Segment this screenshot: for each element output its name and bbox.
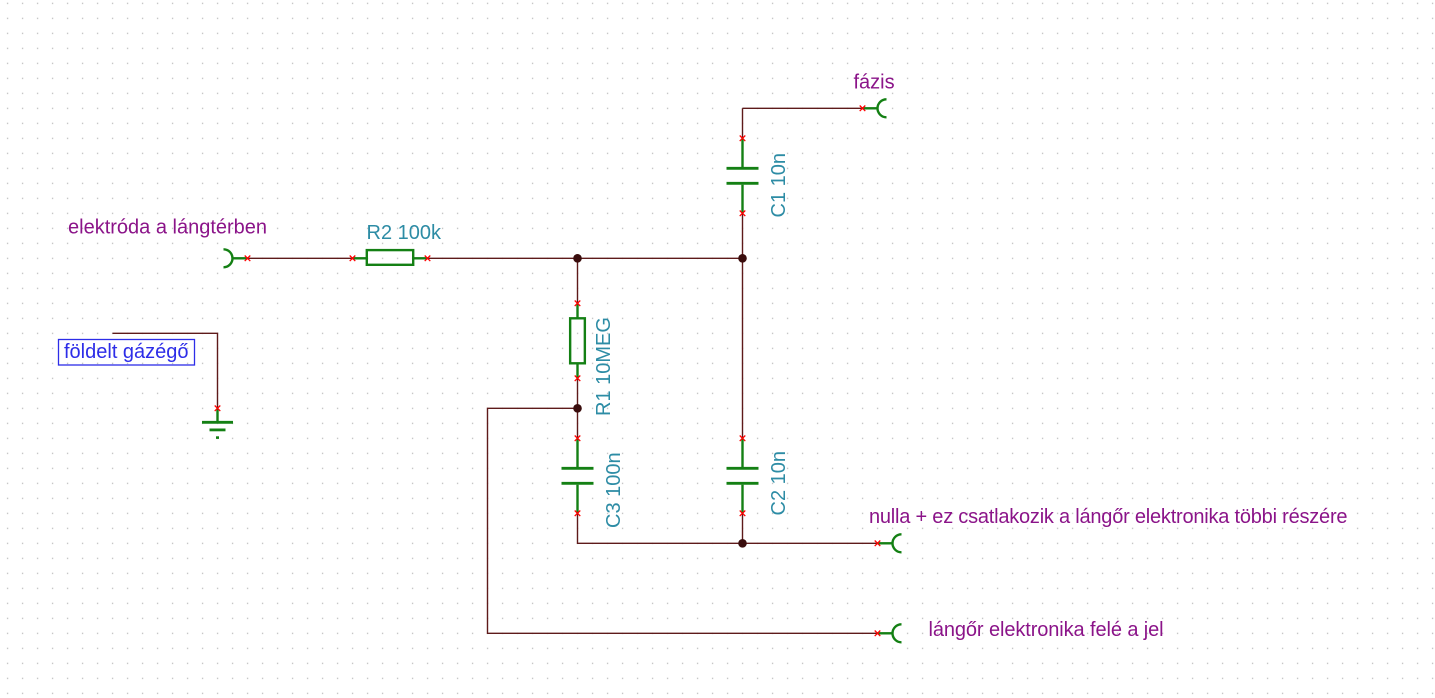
wire fázis net horizontal — [743, 107, 863, 109]
capacitor C1 — [727, 138, 759, 213]
wire C2 bottom to nulla rail — [742, 513, 744, 543]
svg-text:lángőr elektronika felé a jel: lángőr elektronika felé a jel — [929, 619, 1164, 641]
connection cross fázis pin — [860, 106, 866, 112]
capacitor C3 — [562, 438, 594, 513]
capacitor C2 — [727, 438, 759, 513]
resistor R1 — [570, 303, 585, 378]
connection cross C2 top — [740, 436, 746, 442]
connection cross C2 bottom — [740, 511, 746, 517]
connection cross R1 bottom — [575, 376, 581, 382]
svg-text:R1 10MEG: R1 10MEG — [593, 317, 615, 416]
wire C3 bottom down and right along nulla rail — [578, 513, 878, 543]
wire földelt gázégő stub to ground — [113, 333, 218, 408]
svg-text:C2 10n: C2 10n — [768, 451, 790, 516]
ground — [202, 408, 233, 437]
connection cross R1 top — [575, 301, 581, 307]
wire node to C3 top — [577, 408, 579, 438]
wire elektróda pin to R2 left — [248, 257, 353, 259]
frame label földelt gázégő — [59, 340, 195, 366]
svg-text:fázis: fázis — [854, 72, 895, 94]
svg-text:elektróda a lángtérben: elektróda a lángtérben — [68, 217, 267, 239]
connection cross R2 left — [350, 256, 356, 262]
pin jel (arc opens right) — [878, 624, 902, 642]
connection cross nulla pin — [875, 541, 881, 547]
svg-text:C1 10n: C1 10n — [768, 153, 790, 218]
wire R2 right across to C-branch — [428, 257, 743, 259]
pin fázis (arc opens right) — [863, 99, 887, 117]
wire node down to C2 top — [742, 258, 744, 438]
junction node R1 bottom / signal — [573, 404, 582, 413]
connection cross C3 bottom — [575, 511, 581, 517]
connection cross C1 top — [740, 136, 746, 142]
resistor R2 — [353, 250, 428, 265]
svg-text:C3 100n: C3 100n — [603, 452, 625, 528]
junction node at R1 top row — [573, 254, 582, 263]
junction node nulla rail / C2 — [738, 539, 747, 548]
wire R1 bottom to node — [577, 378, 579, 408]
wire node to R1 top — [577, 258, 579, 303]
connection cross C3 top — [575, 436, 581, 442]
pin nulla (arc opens right) — [878, 534, 902, 552]
pin elektróda (arc opens left) — [224, 249, 248, 267]
svg-text:R2 100k: R2 100k — [367, 222, 442, 244]
connection cross R2 right — [425, 256, 431, 262]
svg-text:földelt gázégő: földelt gázégő — [64, 341, 189, 363]
connection cross C1 bottom — [740, 211, 746, 217]
svg-text:nulla + ez csatlakozik a lángő: nulla + ez csatlakozik a lángőr elektron… — [869, 506, 1347, 528]
wire signal run left-down-right to jel pin — [488, 408, 878, 633]
junction node at C2 top row — [738, 254, 747, 263]
connection cross elektróda pin — [245, 256, 251, 262]
wire C1 bottom to node row — [742, 213, 744, 258]
connection cross ground — [215, 406, 221, 412]
connection cross jel pin — [875, 631, 881, 637]
wire fázis net vertical to C1 top — [742, 108, 744, 138]
